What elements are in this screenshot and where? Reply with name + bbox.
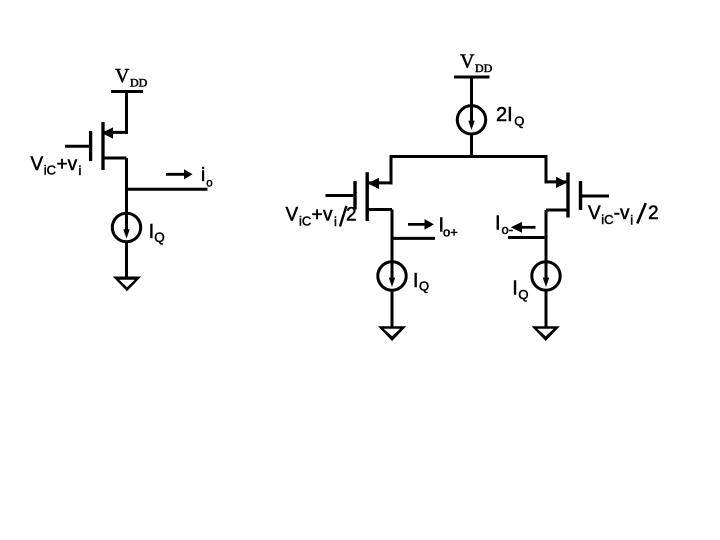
svg-text:2: 2 [346,205,357,226]
transistor M3 gate bar [579,181,582,210]
wire M2 drain down into current source I2 [391,210,394,282]
svg-text:V: V [115,65,130,87]
current source 2IQ circle [457,106,485,134]
transistor M2 gate bar [353,181,356,210]
svg-text:iC: iC [601,212,613,227]
current source I3 circle [532,262,560,290]
label 2IQ [496,104,524,128]
svg-text:I: I [413,270,419,292]
label ViC+vi/2 (gate of M2) [286,205,357,230]
svg-text:i: i [79,163,82,178]
svg-text:DD: DD [475,61,493,75]
wire I2 to ground [391,290,394,329]
svg-text:Q: Q [419,279,429,294]
transistor M3 source arrowhead [556,177,568,188]
transistor M3 channel bar [566,173,569,218]
svg-text:V: V [588,203,601,224]
wire M3 drain down into current source I3 [545,210,548,282]
transistor M3 (PMOS) source terminal [545,180,567,183]
wire node down into current source I1 [125,189,128,234]
svg-text:o: o [206,177,212,189]
wire M1 drain down to output node [125,158,128,191]
svg-text:I: I [512,278,518,300]
label VDD (right) [460,51,493,76]
current source I2 circle [378,262,406,290]
transistor M1 channel bar [101,122,104,170]
svg-text:i: i [630,213,633,228]
VDD supply bar (right) [454,76,490,79]
transistor M1 (PMOS) source terminal [103,131,128,134]
label IQ (left circuit) [149,221,165,245]
svg-text:Q: Q [514,113,524,128]
svg-text:+: + [312,205,323,226]
transistor M1 gate bar [89,131,92,161]
arrow Io- [511,222,536,233]
wire I1 to ground [125,241,128,279]
VDD supply bar (left) [111,90,143,93]
current source I3 arrowhead [543,278,549,287]
wire tail rail [390,155,548,158]
transistor M2 source arrowhead [368,178,380,189]
svg-text:v: v [620,203,630,224]
svg-text:o+: o+ [443,225,458,240]
svg-text:2I: 2I [496,104,513,126]
label Io+ [439,215,458,240]
label Io- [495,213,513,238]
label VDD (left) [115,65,148,90]
label ViC+vi (gate of M1) [31,154,82,178]
svg-text:o-: o- [502,222,514,237]
svg-text:iC: iC [299,214,311,229]
current source 2IQ arrowhead [468,121,474,130]
wire output node horizontal [125,188,208,191]
wire rail down to M2 source [390,157,393,185]
svg-text:+v: +v [57,154,78,175]
wire VDD bar to M1 source [125,92,128,134]
transistor M1 drain terminal [103,157,127,160]
transistor M2 drain terminal [367,208,392,211]
ground (left branch) [378,326,406,341]
current source I1 circle [112,213,140,241]
svg-text:v: v [323,205,333,226]
label IQ (left branch) [413,270,429,294]
arrow io (output current) [166,169,193,179]
svg-text:2: 2 [648,203,659,224]
transistor M3 drain terminal [546,209,568,212]
svg-text:V: V [460,51,475,73]
wire VDD bar to current source 2IQ [470,77,473,125]
wire M1 gate lead [65,145,89,148]
wire I3 to ground [545,290,548,329]
ground (left circuit) [113,277,141,292]
transistor M1 source arrowhead [102,127,114,138]
wire M3 gate lead [582,195,609,198]
svg-text:DD: DD [130,76,148,90]
transistor M2 channel bar [366,172,369,221]
current source I2 arrowhead [389,278,395,287]
svg-text:V: V [286,205,299,226]
ground (right branch) [532,326,560,341]
wire output node (right branch) [508,236,546,239]
svg-text:V: V [31,154,44,175]
label io [201,165,213,189]
svg-text:i: i [201,165,205,186]
svg-text:I: I [495,213,501,235]
svg-text:iC: iC [44,163,56,178]
svg-text:Q: Q [154,230,165,245]
svg-text:Q: Q [518,287,528,302]
current source I1 arrowhead [123,229,129,238]
wire output node (left branch) [392,237,435,240]
wire M2 gate lead [326,194,354,197]
arrow Io+ [408,219,434,230]
wire rail down to M3 source [545,157,548,184]
svg-text:i: i [334,214,337,229]
wire 2IQ to tail rail [470,133,473,157]
transistor M2 (PMOS) source terminal [368,181,393,184]
label ViC-vi/2 (gate of M3) [588,203,659,228]
label IQ (right branch) [512,278,528,302]
